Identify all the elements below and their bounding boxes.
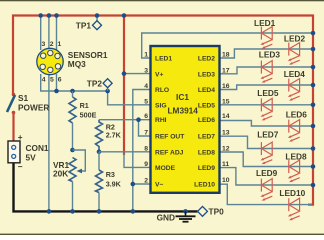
svg-text:8: 8 bbox=[144, 145, 148, 152]
svg-text:2: 2 bbox=[50, 41, 54, 48]
junction: LED2 anode on V+ rail bbox=[311, 47, 316, 52]
svg-text:3: 3 bbox=[144, 67, 148, 74]
svg-text:LED10: LED10 bbox=[194, 182, 215, 189]
test point TP2 bbox=[87, 78, 112, 91]
junction: LED1 anode on V+ rail bbox=[311, 31, 316, 36]
svg-text:LED5: LED5 bbox=[257, 88, 279, 98]
sensor SENSOR1 MQ3 bbox=[37, 41, 108, 84]
svg-text:REF OUT: REF OUT bbox=[155, 134, 185, 141]
svg-text:−: − bbox=[18, 162, 23, 172]
svg-text:S1: S1 bbox=[18, 93, 29, 103]
junction: LED9 anode on V+ rail bbox=[311, 183, 316, 188]
wire: pin4 down and right along y=91 bbox=[41, 74, 108, 91]
junction: GND symbol on ground rail bbox=[183, 209, 188, 214]
junction: LED4 anode on V+ rail bbox=[311, 83, 316, 88]
wire: ground rail bbox=[14, 163, 198, 212]
wire: SIG path down from TP2 node to IC pin5 bbox=[108, 91, 151, 105]
wire: pin16 to LED4 bbox=[220, 85, 314, 90]
wire: pin5 long down to ground bbox=[48, 74, 50, 211]
svg-text:11: 11 bbox=[222, 161, 229, 168]
junction: VR1 bottom on ground rail bbox=[70, 209, 75, 214]
svg-text:3.9K: 3.9K bbox=[106, 180, 122, 189]
wire: L to pin7 REF OUT bbox=[139, 120, 151, 136]
LED LED2 bbox=[288, 43, 300, 65]
svg-text:RLO: RLO bbox=[155, 87, 169, 94]
svg-text:IC1: IC1 bbox=[176, 92, 189, 102]
junction: sensor pin 1 on V+ rail bbox=[54, 13, 59, 18]
LED LED6 bbox=[288, 120, 300, 142]
svg-text:18: 18 bbox=[222, 52, 230, 59]
ground GND bbox=[157, 211, 196, 222]
svg-text:V−: V− bbox=[155, 182, 163, 189]
potentiometer VR1 20K bbox=[53, 148, 85, 212]
junction: sensor pin 2 on V+ rail bbox=[47, 13, 52, 18]
svg-text:5: 5 bbox=[144, 98, 148, 105]
wire: MODE elbow from red end to pin9 bbox=[124, 153, 151, 167]
svg-text:LED10: LED10 bbox=[279, 188, 305, 198]
node: junction pin6 bbox=[54, 89, 59, 94]
LED LED4 bbox=[288, 79, 300, 101]
node: junction TP2 bbox=[105, 89, 110, 94]
svg-text:6: 6 bbox=[144, 113, 148, 120]
wire: pin6 stub bbox=[56, 74, 58, 91]
svg-text:POWER: POWER bbox=[18, 103, 49, 113]
svg-text:LED9: LED9 bbox=[198, 165, 215, 172]
svg-text:V+: V+ bbox=[155, 71, 163, 78]
svg-text:LED6: LED6 bbox=[198, 117, 215, 124]
wire: red V+ branch to IC bbox=[123, 16, 125, 155]
svg-text:SIG: SIG bbox=[155, 102, 167, 109]
node: junction RHI/REFOUT bbox=[136, 117, 141, 122]
svg-text:CON1: CON1 bbox=[26, 143, 49, 153]
wire: top rail bbox=[13, 16, 313, 205]
svg-text:TP1: TP1 bbox=[76, 20, 92, 30]
node: V+ tap dot bbox=[122, 71, 127, 76]
resistor R2 2.7K bbox=[96, 120, 122, 152]
LED LED3 bbox=[260, 61, 272, 83]
svg-text:9: 9 bbox=[144, 161, 148, 168]
LED LED7 bbox=[260, 142, 272, 164]
svg-text:13: 13 bbox=[222, 130, 230, 137]
test point TP1 bbox=[76, 13, 102, 30]
svg-text:+: + bbox=[18, 132, 23, 142]
svg-text:5V: 5V bbox=[26, 153, 37, 163]
svg-text:17: 17 bbox=[222, 67, 230, 74]
svg-text:LED2: LED2 bbox=[198, 56, 215, 63]
svg-text:LED4: LED4 bbox=[284, 69, 306, 79]
wire: pin17 to LED3 bbox=[220, 67, 314, 74]
LED LED9 bbox=[260, 179, 272, 201]
svg-text:14: 14 bbox=[222, 113, 230, 120]
wire: V- pin2 to RLO vertical bbox=[133, 183, 151, 185]
svg-text:RHI: RHI bbox=[155, 117, 167, 124]
svg-text:3: 3 bbox=[42, 41, 46, 48]
svg-text:REF ADJ: REF ADJ bbox=[155, 149, 184, 156]
junction: LED6 anode on V+ rail bbox=[311, 124, 316, 129]
svg-text:1: 1 bbox=[58, 41, 62, 48]
svg-text:12: 12 bbox=[222, 145, 230, 152]
svg-text:R3: R3 bbox=[106, 170, 115, 179]
svg-text:LED7: LED7 bbox=[198, 134, 215, 141]
svg-text:4: 4 bbox=[144, 83, 148, 90]
svg-text:R1: R1 bbox=[80, 101, 89, 110]
wire: sensor pin3 to rail bbox=[40, 16, 42, 51]
wire: RLO jog down to V- row and ground bbox=[133, 90, 151, 212]
junction: LED5 anode on V+ rail bbox=[311, 103, 316, 108]
svg-text:2.7K: 2.7K bbox=[106, 130, 122, 139]
svg-text:LED5: LED5 bbox=[198, 102, 215, 109]
wire: pin1 LED1 up and over bbox=[142, 33, 313, 58]
svg-text:LED1: LED1 bbox=[155, 56, 172, 63]
svg-text:10: 10 bbox=[222, 177, 230, 184]
svg-text:LED9: LED9 bbox=[256, 168, 278, 178]
svg-text:5: 5 bbox=[50, 77, 54, 84]
wire: pin11 to LED9 bbox=[220, 168, 314, 185]
wire: pin18 to LED2 bbox=[220, 49, 314, 58]
wire: RHI from R2 top to pin6 bbox=[99, 119, 151, 121]
svg-text:16: 16 bbox=[222, 83, 230, 90]
wire: V+ tap to pin3 bbox=[124, 73, 151, 75]
wire: pin13 to LED7 bbox=[220, 136, 314, 148]
wire: pin14 to LED6 bbox=[220, 121, 314, 127]
wire: S1 to CON1 red bbox=[12, 112, 14, 141]
wire: pin12 to LED8 bbox=[220, 152, 314, 167]
svg-text:LED3: LED3 bbox=[259, 50, 281, 60]
svg-text:LED6: LED6 bbox=[286, 109, 308, 119]
test point TP0 bbox=[198, 206, 225, 216]
svg-text:MQ3: MQ3 bbox=[68, 59, 86, 69]
LED LED1 bbox=[260, 27, 272, 49]
LED LED10 bbox=[288, 198, 300, 220]
junction: LED8 anode on V+ rail bbox=[311, 164, 316, 169]
svg-text:LED4: LED4 bbox=[198, 87, 215, 94]
svg-text:TP0: TP0 bbox=[209, 206, 225, 216]
resistor R3 3.9K bbox=[96, 150, 122, 212]
svg-text:LED2: LED2 bbox=[284, 34, 306, 44]
wire: REF ADJ from R2/R3 node to pin8 bbox=[99, 151, 151, 153]
node: red branch dot on top rail bbox=[122, 13, 127, 18]
wire: pin15 to LED5 bbox=[220, 104, 314, 106]
svg-text:LED7: LED7 bbox=[257, 129, 279, 139]
node: junction R1 top bbox=[70, 89, 75, 94]
svg-text:1: 1 bbox=[144, 52, 148, 59]
svg-text:500E: 500E bbox=[80, 110, 97, 119]
svg-text:20K: 20K bbox=[53, 168, 68, 178]
LED LED5 bbox=[260, 98, 272, 120]
svg-text:MODE: MODE bbox=[155, 165, 176, 172]
wire: sensor pin1 to rail bbox=[56, 16, 58, 51]
IC U1: IC1 LM3914 bbox=[144, 46, 230, 193]
switch S1 POWER bbox=[7, 93, 49, 115]
wire: pin10 to LED10 bbox=[220, 184, 313, 204]
junction: sensor pin 3 on V+ rail bbox=[38, 13, 43, 18]
LED LED8 bbox=[288, 160, 300, 182]
svg-text:LED8: LED8 bbox=[285, 152, 307, 162]
node: junction V-/RLO bbox=[131, 182, 136, 187]
svg-text:LM3914: LM3914 bbox=[167, 105, 198, 115]
svg-text:7: 7 bbox=[144, 130, 148, 137]
junction: RLO/V- wire on ground rail bbox=[131, 209, 136, 214]
junction: R3 bottom on ground rail bbox=[97, 209, 102, 214]
svg-text:LED1: LED1 bbox=[254, 18, 276, 28]
resistor R1 500E bbox=[69, 91, 97, 150]
svg-text:2: 2 bbox=[144, 178, 148, 185]
svg-text:LED8: LED8 bbox=[198, 149, 215, 156]
svg-text:6: 6 bbox=[58, 77, 62, 84]
svg-text:4: 4 bbox=[42, 77, 46, 84]
svg-text:LED3: LED3 bbox=[198, 71, 215, 78]
connector CON1 5V bbox=[8, 132, 49, 172]
svg-text:15: 15 bbox=[222, 98, 230, 105]
junction: LED7 anode on V+ rail bbox=[311, 146, 316, 151]
junction: sensor pin 5 on ground rail bbox=[47, 209, 52, 214]
svg-text:TP2: TP2 bbox=[87, 78, 103, 88]
wire: sensor pin2 to rail bbox=[48, 16, 50, 49]
svg-text:GND: GND bbox=[157, 213, 175, 223]
junction: LED3 anode on V+ rail bbox=[311, 65, 316, 70]
